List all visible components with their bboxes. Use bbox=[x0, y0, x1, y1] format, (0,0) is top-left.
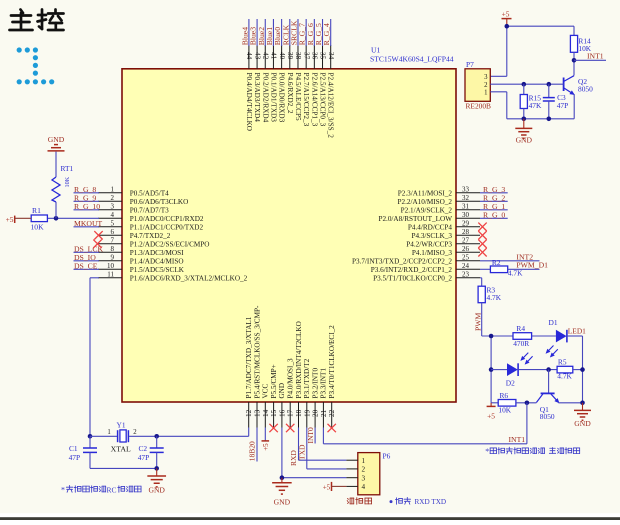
wire RT1 to junction bbox=[55, 202, 57, 218]
net label RCLK wire bbox=[281, 19, 290, 46]
junction node right rail R5 bbox=[580, 367, 585, 372]
svg-text:2: 2 bbox=[111, 194, 115, 202]
svg-text:4.7K: 4.7K bbox=[557, 372, 572, 381]
wire D1 to right rail bbox=[567, 336, 583, 403]
svg-text:11: 11 bbox=[107, 271, 114, 279]
net label INT2 wire pin25 bbox=[480, 252, 540, 261]
junction node crystal left bbox=[88, 434, 93, 439]
wire rail to D2 bbox=[491, 369, 507, 371]
svg-text:34: 34 bbox=[327, 52, 335, 60]
resistor R1 bbox=[31, 206, 48, 231]
junction node R15 bottom bbox=[522, 117, 527, 122]
pin 22 P3.4/T0/T1CLKO/ECI_2 bbox=[328, 325, 336, 428]
junction node C3 bottom bbox=[547, 117, 552, 122]
svg-text:P4.4/RD/CCP4: P4.4/RD/CCP4 bbox=[408, 223, 453, 231]
svg-text:TXD: TXD bbox=[298, 444, 307, 460]
svg-text:INT0: INT0 bbox=[306, 427, 315, 443]
capacitor C3 bbox=[543, 84, 568, 119]
pin 10 P1.5/ADC5/SCLK bbox=[98, 262, 185, 274]
svg-text:33: 33 bbox=[462, 186, 470, 194]
svg-text:P3.2/INT0: P3.2/INT0 bbox=[311, 368, 319, 399]
ground GND crystal bbox=[147, 468, 166, 486]
pin 12 P1.7/ADC7/TXD_3/XTAL1 bbox=[245, 316, 253, 427]
svg-text:10K: 10K bbox=[64, 176, 71, 187]
no-connect X pin 7 bbox=[93, 240, 101, 248]
pin 28 P4.3/SCLK_3 bbox=[411, 228, 480, 240]
svg-text:P0.6/AD6/T3CLKO: P0.6/AD6/T3CLKO bbox=[130, 198, 189, 206]
net label Blue1 wire bbox=[265, 19, 274, 46]
wire P7 pin1 to bottom rail bbox=[490, 92, 574, 119]
svg-text:P4.3/SCLK_3: P4.3/SCLK_3 bbox=[411, 232, 452, 240]
svg-text:D2: D2 bbox=[506, 378, 515, 387]
net label R_G_5 wire bbox=[314, 19, 323, 46]
svg-text:P0.3/AD3/TXD4: P0.3/AD3/TXD4 bbox=[253, 73, 261, 123]
net label R_G_3 wire bbox=[480, 185, 508, 194]
net label R_G_10 wire bbox=[74, 202, 101, 211]
pin 42 P0.2/AD2/RXD4 bbox=[261, 45, 269, 123]
net label R_G_2 wire bbox=[480, 193, 508, 202]
power +5 P6 pin4 bbox=[323, 482, 332, 492]
wire pin23 down bbox=[480, 278, 482, 286]
junction node GND crystal bbox=[154, 466, 159, 471]
svg-text:6: 6 bbox=[111, 228, 115, 236]
net label PWM wire bbox=[474, 303, 483, 336]
wire pin16 to GND and P6 pin3 bbox=[282, 428, 347, 478]
junction node R1/RT1/pin4 bbox=[54, 216, 59, 221]
svg-text:28: 28 bbox=[462, 228, 470, 236]
svg-text:GND: GND bbox=[574, 419, 591, 428]
pin 26 P4.1/MISO_3 bbox=[412, 245, 480, 257]
annotation 先使用内部RC振荡器 bbox=[61, 485, 141, 494]
svg-text:P1.3/ADC3/MOSI: P1.3/ADC3/MOSI bbox=[130, 249, 184, 257]
svg-text:2: 2 bbox=[484, 82, 488, 89]
no-connect X pin 17 bbox=[286, 424, 294, 432]
pin 38 P4.5/ALE/CCP5 bbox=[294, 45, 302, 121]
ground GND bottom right bbox=[574, 403, 591, 421]
svg-text:24: 24 bbox=[462, 262, 470, 270]
svg-text:P0.7/AD7/T3: P0.7/AD7/T3 bbox=[130, 206, 169, 214]
svg-text:P4.1/MISO_3: P4.1/MISO_3 bbox=[412, 249, 453, 257]
connector P6 bbox=[346, 451, 390, 494]
pin 4 P1.0/ADC0/CCP1/RXD2 bbox=[98, 211, 204, 223]
net RXD wire pin18 to P6 pin1 bbox=[289, 428, 346, 467]
svg-text:4.7K: 4.7K bbox=[508, 269, 523, 278]
svg-text:38: 38 bbox=[294, 52, 302, 60]
svg-text:P4.2/WR/CCP3: P4.2/WR/CCP3 bbox=[406, 240, 452, 248]
svg-text:XTAL: XTAL bbox=[111, 444, 131, 453]
svg-text:12: 12 bbox=[245, 409, 253, 417]
svg-text:R1: R1 bbox=[32, 206, 41, 215]
svg-text:2: 2 bbox=[133, 429, 137, 436]
svg-text:P4.6/RXD2_2: P4.6/RXD2_2 bbox=[286, 73, 294, 114]
wire +5 to P6 pin4 bbox=[332, 485, 347, 487]
net label R_G_4 wire bbox=[322, 19, 331, 46]
svg-text:P3.1/TXD/T2: P3.1/TXD/T2 bbox=[303, 358, 311, 398]
wire net INT1 bottom bbox=[323, 403, 527, 444]
svg-text:+5: +5 bbox=[262, 443, 270, 451]
pin 23 P3.5/T1/T0CLKO/CCP0_2 bbox=[373, 271, 480, 283]
net label Blue0 wire bbox=[273, 19, 282, 46]
svg-text:1: 1 bbox=[111, 186, 115, 194]
resistor R14 bbox=[570, 35, 591, 52]
pin 14 VCC bbox=[262, 384, 270, 428]
svg-text:18B20: 18B20 bbox=[248, 441, 257, 461]
net label DS_LCK wire bbox=[74, 244, 104, 253]
pin 15 P5.5/CMP+ bbox=[270, 364, 278, 427]
wire Q1 emitter to GND rail bbox=[558, 402, 582, 404]
net label R_G_0 wire bbox=[480, 210, 508, 219]
wire P7 pin2 to Q2 base bbox=[490, 83, 563, 85]
svg-text:3: 3 bbox=[484, 74, 488, 81]
svg-text:P4.7/TXD2_2: P4.7/TXD2_2 bbox=[130, 232, 171, 240]
capacitor C1 bbox=[69, 436, 97, 468]
svg-text:INT1: INT1 bbox=[587, 51, 604, 60]
svg-text:R6: R6 bbox=[500, 391, 509, 400]
svg-text:LED1: LED1 bbox=[568, 327, 586, 336]
net label INT1 top wire bbox=[574, 51, 606, 60]
svg-text:RXD TXD: RXD TXD bbox=[415, 498, 447, 506]
pin 24 P3.6/INT2/RXD_2/CCP1_2 bbox=[371, 262, 480, 274]
svg-text:32: 32 bbox=[462, 194, 470, 202]
svg-text:P0.1/AD1/TXD3: P0.1/AD1/TXD3 bbox=[269, 73, 277, 123]
svg-text:7: 7 bbox=[111, 237, 115, 245]
junction node INT1 branch bbox=[525, 401, 530, 406]
no-connect X pin 28 bbox=[478, 231, 486, 239]
svg-text:44: 44 bbox=[245, 52, 253, 60]
svg-text:47P: 47P bbox=[557, 101, 569, 110]
no-connect X pin 15 bbox=[269, 424, 277, 432]
resistor R15 bbox=[520, 84, 542, 119]
svg-text:19: 19 bbox=[303, 409, 311, 417]
wire R5 to right rail bbox=[573, 369, 583, 371]
pin 1 P0.5/AD5/T4 bbox=[98, 186, 169, 198]
svg-text:R_G_4: R_G_4 bbox=[322, 23, 331, 45]
svg-text:R4: R4 bbox=[516, 324, 525, 333]
annotation 蓝牙RXD TXD bbox=[390, 497, 447, 506]
svg-text:+5: +5 bbox=[6, 215, 14, 224]
svg-text:26: 26 bbox=[462, 245, 470, 253]
net label DS_IO wire bbox=[74, 253, 100, 262]
ground GND chip pin16 bbox=[272, 478, 292, 494]
wire pin12 to crystal bbox=[129, 428, 249, 437]
junction node C3 top bbox=[547, 82, 552, 87]
svg-text:P1.5/ADC5/SCLK: P1.5/ADC5/SCLK bbox=[130, 266, 185, 274]
net label Blue3 wire bbox=[249, 19, 258, 46]
net label R_G_6 wire bbox=[306, 19, 315, 46]
svg-text:P2.7/A15/CCP2_3: P2.7/A15/CCP2_3 bbox=[302, 73, 310, 127]
pin 6 P4.7/TXD2_2 bbox=[98, 228, 171, 240]
svg-text:47P: 47P bbox=[69, 453, 81, 462]
svg-text:P1.2/ADC2/SS/ECI/CMPO: P1.2/ADC2/SS/ECI/CMPO bbox=[130, 240, 210, 248]
power +5 top right bbox=[502, 9, 512, 26]
svg-text:21: 21 bbox=[320, 409, 328, 417]
pin 31 P2.1/A9/SCLK_2 bbox=[401, 203, 480, 215]
svg-text:30: 30 bbox=[462, 211, 470, 219]
svg-text:RC: RC bbox=[107, 485, 117, 494]
connector P7 RE200B bbox=[465, 60, 491, 110]
svg-text:14: 14 bbox=[262, 409, 270, 417]
svg-text:20: 20 bbox=[312, 409, 320, 417]
svg-text:31: 31 bbox=[462, 203, 470, 211]
svg-text:R2: R2 bbox=[492, 258, 501, 267]
svg-text:Y1: Y1 bbox=[117, 420, 126, 429]
svg-text:23: 23 bbox=[462, 271, 470, 279]
wire Q2 emitter down bbox=[573, 94, 575, 119]
junction node R15 top bbox=[522, 82, 527, 87]
svg-text:P0.4/AD4/T4CLKO: P0.4/AD4/T4CLKO bbox=[245, 73, 253, 132]
svg-text:29: 29 bbox=[462, 220, 470, 228]
pin 41 P0.1/AD1/TXD3 bbox=[269, 45, 277, 122]
svg-text:43: 43 bbox=[253, 52, 261, 60]
svg-text:1: 1 bbox=[362, 457, 366, 465]
svg-text:8: 8 bbox=[111, 245, 115, 253]
junction node D2 row bbox=[489, 367, 494, 372]
pin 25 P3.7/INT3/TXD_2/CCP2/CCP2_2 bbox=[352, 254, 480, 266]
power +5 under R6 rail bbox=[487, 403, 496, 421]
wire pin11 to crystal bbox=[90, 278, 99, 437]
svg-text:1: 1 bbox=[484, 89, 487, 96]
svg-text:C1: C1 bbox=[69, 444, 78, 453]
svg-text:10K: 10K bbox=[31, 223, 45, 232]
svg-text:8050: 8050 bbox=[578, 84, 593, 93]
svg-text:4.7K: 4.7K bbox=[487, 293, 502, 302]
junction node INT1 top bbox=[572, 58, 577, 63]
svg-text:*: * bbox=[485, 447, 489, 456]
net label SRCLK wire bbox=[289, 19, 298, 46]
svg-text:16: 16 bbox=[278, 409, 286, 417]
pin 13 P5.4/RST/MCLKO/SS_3/CMP- bbox=[253, 305, 261, 427]
svg-text:RE200B: RE200B bbox=[466, 102, 492, 111]
svg-text:DS_CE: DS_CE bbox=[74, 261, 98, 270]
junction node GND chip bbox=[280, 475, 285, 480]
junction node GND corner bbox=[580, 401, 585, 406]
svg-text:RT1: RT1 bbox=[61, 164, 74, 173]
svg-text:GND: GND bbox=[148, 485, 165, 494]
transistor Q1 8050 bbox=[536, 370, 558, 421]
svg-text:P5.4/RST/MCLKO/SS_3/CMP-: P5.4/RST/MCLKO/SS_3/CMP- bbox=[253, 305, 261, 398]
svg-text:22: 22 bbox=[328, 409, 336, 417]
pin 11 P1.6/ADC6/RXD_3/XTAL2/MCLKO_2 bbox=[98, 271, 248, 283]
junction node rail top bbox=[489, 334, 494, 339]
pin 2 P0.6/AD6/T3CLKO bbox=[98, 194, 188, 206]
svg-text:PWM_D1: PWM_D1 bbox=[516, 261, 548, 270]
svg-text:8050: 8050 bbox=[540, 412, 555, 421]
svg-text:3: 3 bbox=[362, 474, 366, 482]
svg-text:40: 40 bbox=[278, 52, 286, 60]
svg-text:42: 42 bbox=[261, 52, 269, 60]
pin 16 GND bbox=[278, 383, 286, 428]
svg-text:U1: U1 bbox=[371, 46, 380, 55]
pin 35 P2.5/A13/CCP0_3 bbox=[319, 45, 327, 127]
power +5 left bbox=[6, 215, 15, 224]
svg-text:P2.6/A14/CCP1_3: P2.6/A14/CCP1_3 bbox=[310, 73, 318, 127]
svg-text:P3.6/INT2/RXD_2/CCP1_2: P3.6/INT2/RXD_2/CCP1_2 bbox=[371, 266, 453, 274]
pin 8 P1.3/ADC3/MOSI bbox=[98, 245, 184, 257]
wire pin21 INT1 bbox=[322, 428, 324, 444]
LED D1 LED1 bbox=[547, 318, 587, 357]
pin 27 P4.2/WR/CCP3 bbox=[406, 237, 480, 249]
svg-text:P3.0/RXD/INT4/T2CLKO: P3.0/RXD/INT4/T2CLKO bbox=[295, 321, 303, 398]
pin 34 P2.4/A12/ECI_3/SS_2 bbox=[327, 45, 335, 138]
pin 30 P2.0/A8/RSTOUT_LOW bbox=[378, 211, 480, 223]
svg-text:MKOUT: MKOUT bbox=[74, 219, 102, 228]
wire D2 to R5/Q1 junction bbox=[518, 369, 557, 371]
svg-text:10K: 10K bbox=[498, 406, 511, 415]
svg-text:PWM: PWM bbox=[474, 312, 483, 331]
svg-text:3: 3 bbox=[111, 203, 115, 211]
svg-text:P6: P6 bbox=[383, 451, 391, 460]
svg-text:P3.7/INT3/TXD_2/CCP2/CCP2_2: P3.7/INT3/TXD_2/CCP2/CCP2_2 bbox=[352, 257, 452, 265]
capacitor C2 bbox=[138, 436, 164, 468]
wire R4 to D1 bbox=[532, 335, 556, 337]
pin 32 P2.2/A10/MISO_2 bbox=[397, 194, 480, 206]
pin 44 P0.4/AD4/T4CLKO bbox=[245, 45, 253, 131]
net label INT0 wire pin20 bbox=[306, 427, 315, 443]
svg-text:P2.0/A8/RSTOUT_LOW: P2.0/A8/RSTOUT_LOW bbox=[378, 215, 452, 223]
svg-text:10: 10 bbox=[107, 262, 115, 270]
svg-text:GND: GND bbox=[274, 498, 291, 507]
no-connect X pin 29 bbox=[478, 223, 486, 231]
junction node +5 top bbox=[505, 24, 510, 29]
svg-text:P2.2/A10/MISO_2: P2.2/A10/MISO_2 bbox=[397, 198, 452, 206]
svg-text:4: 4 bbox=[111, 211, 115, 219]
pin 29 P4.4/RD/CCP4 bbox=[408, 220, 480, 232]
pin 7 P1.2/ADC2/SS/ECI/CMPO bbox=[98, 237, 209, 249]
pin 39 P4.6/RXD2_2 bbox=[286, 45, 294, 114]
thermistor RT1 bbox=[52, 164, 73, 202]
svg-text:P2.1/A9/SCLK_2: P2.1/A9/SCLK_2 bbox=[401, 206, 453, 214]
no-connect X pin 6 bbox=[94, 231, 102, 239]
svg-text:P5.5/CMP+: P5.5/CMP+ bbox=[270, 364, 278, 398]
svg-text:INT1: INT1 bbox=[509, 435, 526, 444]
transistor Q2 8050 bbox=[564, 76, 593, 95]
svg-text:P7: P7 bbox=[466, 60, 474, 69]
svg-text:P3.3/INT1: P3.3/INT1 bbox=[320, 368, 328, 399]
power +5 pin14 VCC bbox=[262, 428, 270, 451]
svg-text:2: 2 bbox=[362, 466, 366, 474]
svg-text:P2.5/A13/CCP0_3: P2.5/A13/CCP0_3 bbox=[319, 73, 327, 127]
pin 19 P3.1/TXD/T2 bbox=[303, 358, 311, 427]
pin 21 P3.3/INT1 bbox=[320, 368, 328, 428]
svg-text:P2.4/A12/ECI_3/SS_2: P2.4/A12/ECI_3/SS_2 bbox=[327, 73, 335, 139]
svg-text:47P: 47P bbox=[138, 453, 150, 462]
svg-text:+5: +5 bbox=[487, 412, 495, 421]
pin 37 P2.7/A15/CCP2_3 bbox=[302, 45, 310, 127]
svg-text:36: 36 bbox=[311, 52, 319, 60]
pin 20 P3.2/INT0 bbox=[311, 368, 319, 428]
pin 17 P4.0/MOSI_3 bbox=[287, 358, 295, 428]
net label Blue4 wire bbox=[240, 19, 249, 46]
svg-text:18: 18 bbox=[295, 409, 303, 417]
svg-text:GND: GND bbox=[516, 136, 533, 145]
svg-text:GND: GND bbox=[278, 383, 286, 399]
svg-text:25: 25 bbox=[462, 254, 470, 262]
no-connect X pin 22 bbox=[328, 424, 336, 432]
svg-text:D1: D1 bbox=[549, 318, 558, 327]
resistor R4 bbox=[513, 324, 532, 348]
wire capacitor bottoms bbox=[90, 467, 157, 469]
net label R_G_8 wire bbox=[74, 185, 100, 194]
IC U1 STC15W4K60S4_LQFP44 body bbox=[122, 69, 456, 402]
wire +5 junction to R14 and P7 bbox=[490, 26, 574, 76]
svg-text:39: 39 bbox=[286, 52, 294, 60]
no-connect X pin 27 bbox=[478, 240, 486, 248]
photodiode D2 bbox=[506, 353, 533, 388]
svg-text:P3.4/T0/T1CLKO/ECI_2: P3.4/T0/T1CLKO/ECI_2 bbox=[328, 325, 336, 399]
svg-text:17: 17 bbox=[287, 409, 295, 417]
junction node Q1 base bbox=[546, 367, 551, 372]
svg-text:41: 41 bbox=[270, 52, 278, 60]
svg-text:5: 5 bbox=[111, 220, 115, 228]
net label R_G_1 wire bbox=[480, 202, 508, 211]
resistor R3 bbox=[478, 285, 502, 302]
net label Blue2 wire bbox=[257, 19, 266, 46]
svg-text:P4.5/ALE/CCP5: P4.5/ALE/CCP5 bbox=[294, 73, 302, 122]
wire junction to crystal bbox=[90, 435, 117, 437]
pin 33 P2.3/A11/MOSI_2 bbox=[398, 186, 480, 198]
svg-text:GND: GND bbox=[48, 135, 65, 144]
svg-text:27: 27 bbox=[462, 237, 470, 245]
svg-text:R_G_10: R_G_10 bbox=[74, 202, 100, 211]
net TXD wire pin19 to P6 pin2 bbox=[298, 428, 347, 469]
resistor R6 bbox=[491, 391, 516, 415]
wire GND to RT1 bbox=[55, 152, 57, 177]
svg-text:VCC: VCC bbox=[262, 384, 270, 399]
svg-text:P1.0/ADC0/CCP1/RXD2: P1.0/ADC0/CCP1/RXD2 bbox=[130, 215, 204, 223]
svg-text:470R: 470R bbox=[513, 339, 529, 348]
resistor R5 bbox=[557, 358, 573, 381]
pin 36 P2.6/A14/CCP1_3 bbox=[310, 45, 318, 127]
svg-text:P2.3/A11/MOSI_2: P2.3/A11/MOSI_2 bbox=[398, 189, 453, 197]
ground GND top-left bbox=[48, 135, 65, 151]
svg-text:C2: C2 bbox=[139, 444, 148, 453]
net label R_G_7 wire bbox=[298, 19, 307, 46]
wire pin4 to R1/RT1 junction bbox=[47, 217, 99, 219]
svg-text:15: 15 bbox=[270, 409, 278, 417]
logo dots bbox=[17, 47, 55, 84]
svg-text:R5: R5 bbox=[558, 358, 567, 367]
pin 43 P0.3/AD3/TXD4 bbox=[253, 45, 261, 122]
net label DS_CE wire bbox=[74, 261, 100, 270]
svg-text:R_G_0: R_G_0 bbox=[483, 210, 505, 219]
net label MKOUT wire bbox=[74, 219, 103, 228]
svg-text:47K: 47K bbox=[529, 101, 542, 110]
pin 3 P0.7/AD7/T3 bbox=[98, 203, 169, 215]
wire R14 to Q2 collector bbox=[573, 52, 575, 75]
svg-text:9: 9 bbox=[111, 254, 115, 262]
svg-text:37: 37 bbox=[302, 52, 310, 60]
svg-text:P0.5/AD5/T4: P0.5/AD5/T4 bbox=[130, 189, 169, 197]
crystal Y1 XTAL bbox=[107, 420, 137, 453]
net label 18B20 wire pin13 bbox=[248, 428, 257, 462]
svg-text:P0.0/AD0/RXD3: P0.0/AD0/RXD3 bbox=[278, 73, 286, 123]
svg-text:STC15W4K60S4_LQFP44: STC15W4K60S4_LQFP44 bbox=[370, 54, 454, 63]
svg-text:*: * bbox=[61, 485, 65, 494]
pin 9 P1.4/ADC4/MISO bbox=[98, 254, 184, 266]
svg-text:4: 4 bbox=[362, 483, 366, 491]
svg-text:P1.4/ADC4/MISO: P1.4/ADC4/MISO bbox=[130, 257, 184, 265]
resistor R2 bbox=[480, 258, 523, 278]
svg-text:P0.2/AD2/RXD4: P0.2/AD2/RXD4 bbox=[261, 73, 269, 123]
label 烧录口 bbox=[347, 498, 354, 504]
junction node crystal right C2 bbox=[154, 434, 159, 439]
svg-text:P3.5/T1/T0CLKO/CCP0_2: P3.5/T1/T0CLKO/CCP0_2 bbox=[373, 274, 452, 282]
svg-text:+5: +5 bbox=[502, 9, 510, 18]
wire +5 to R1 bbox=[15, 217, 32, 219]
pin 40 P0.0/AD0/RXD3 bbox=[278, 45, 286, 123]
svg-text:13: 13 bbox=[254, 409, 262, 417]
net label PWM_D1 wire pin24 bbox=[508, 261, 548, 270]
